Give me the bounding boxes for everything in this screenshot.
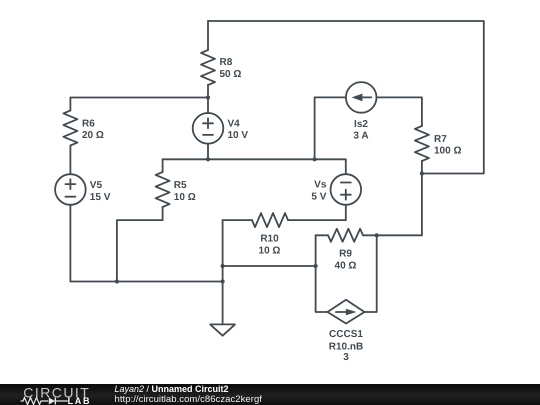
svg-text:Vs: Vs [314,180,327,191]
svg-text:Is2: Is2 [354,119,368,130]
svg-text:5 V: 5 V [311,191,326,202]
svg-text:100 Ω: 100 Ω [434,146,461,157]
svg-text:R6: R6 [82,119,95,130]
svg-text:10 Ω: 10 Ω [174,192,196,203]
svg-text:R9: R9 [339,249,352,260]
svg-text:R5: R5 [174,180,187,191]
svg-text:40 Ω: 40 Ω [335,261,357,272]
svg-text:10 Ω: 10 Ω [259,246,281,257]
svg-text:R10: R10 [260,233,279,244]
svg-text:R8: R8 [220,57,233,68]
svg-text:LAB: LAB [68,396,92,405]
svg-text:3 A: 3 A [353,131,368,142]
svg-text:R7: R7 [434,134,447,145]
svg-text:3: 3 [343,352,349,363]
svg-text:10 V: 10 V [228,130,249,141]
svg-text:V4: V4 [228,119,241,130]
svg-text:20 Ω: 20 Ω [82,130,104,141]
svg-text:CCCS1: CCCS1 [329,329,363,340]
svg-text:15 V: 15 V [90,192,111,203]
svg-text:50 Ω: 50 Ω [220,69,242,80]
svg-text:R10.nB: R10.nB [329,341,363,352]
svg-text:V5: V5 [90,180,103,191]
